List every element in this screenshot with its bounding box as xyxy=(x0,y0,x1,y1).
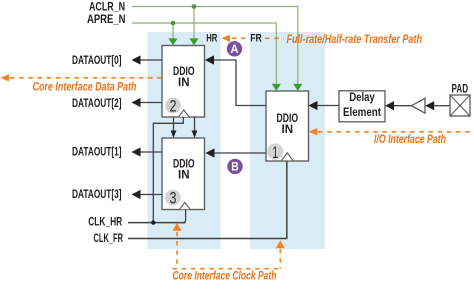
wire buffer to Delay Element xyxy=(385,101,412,110)
wire CLK_HR net xyxy=(128,117,186,223)
wire DATAOUT[2] with arrow xyxy=(132,98,163,107)
I/O interface shaded region (right blue band) xyxy=(250,32,325,249)
green arrowhead into DDIO 1 (ACLR) xyxy=(293,84,302,91)
PAD cell (square with X) xyxy=(450,95,470,116)
wire DATAOUT[3] with arrow xyxy=(132,190,163,199)
junction dot CLK_HR xyxy=(151,220,155,224)
svg-text:Element: Element xyxy=(343,106,381,119)
svg-text:HR: HR xyxy=(206,32,217,44)
svg-text:APRE_N: APRE_N xyxy=(87,12,126,26)
svg-text:I/O Interface Path: I/O Interface Path xyxy=(374,134,446,146)
svg-text:Core Interface Clock Path: Core Interface Clock Path xyxy=(173,271,277,283)
DDIO IN block U1 xyxy=(266,91,309,161)
svg-text:Delay: Delay xyxy=(349,91,375,104)
annotation: clock path arrow to U3 clock xyxy=(173,223,182,269)
junction dot on ACLR_N xyxy=(192,4,197,9)
annotation: transfer path arrow and dashes xyxy=(222,35,285,42)
core interface shaded region (left blue band) xyxy=(148,32,221,249)
DDIO IN block U2 xyxy=(162,46,205,118)
DDIO IN block U3 xyxy=(162,138,205,210)
clock triangle of U3 xyxy=(180,202,191,209)
internal transfer arrows U2 -> U3 xyxy=(171,117,198,138)
wire DATAOUT[1] with arrow xyxy=(132,147,163,156)
junction dot on APRE_N xyxy=(171,21,176,26)
svg-text:CLK_HR: CLK_HR xyxy=(88,216,123,228)
green arrowhead into DDIO 1 (APRE) xyxy=(272,84,281,91)
green arrowhead into DDIO 2 (from APRE branch) xyxy=(168,38,177,45)
number circle 2 xyxy=(165,98,181,114)
wire PAD to buffer with arrow xyxy=(425,101,450,110)
svg-text:Full-rate/Half-rate Transfer P: Full-rate/Half-rate Transfer Path xyxy=(287,34,423,46)
svg-text:2: 2 xyxy=(170,98,177,116)
svg-text:IN: IN xyxy=(282,124,294,136)
number circle 1 xyxy=(267,143,283,159)
number circle 3 xyxy=(165,190,181,206)
wire U1 output to U3 input xyxy=(206,148,267,157)
node B circle xyxy=(227,159,242,174)
net APRE_N wire xyxy=(132,23,276,84)
net ACLR_N wire xyxy=(132,7,298,85)
svg-text:3: 3 xyxy=(170,190,177,208)
svg-text:DATAOUT[3]: DATAOUT[3] xyxy=(72,187,122,201)
svg-text:CLK_FR: CLK_FR xyxy=(94,233,124,245)
svg-text:IN: IN xyxy=(178,77,190,89)
wire Delay Element to U1 input xyxy=(309,101,340,110)
wire CLK_FR net xyxy=(128,161,287,239)
green arrowhead into DDIO 2 (from ACLR branch) xyxy=(189,38,198,45)
annotation: I/O Interface Path arrow xyxy=(309,128,473,135)
clock triangle of U1 xyxy=(282,153,293,161)
svg-text:FR: FR xyxy=(250,32,262,44)
wire DATAOUT[0] with arrow xyxy=(132,55,163,64)
svg-text:DATAOUT[2]: DATAOUT[2] xyxy=(72,96,122,110)
svg-text:Core Interface Data Path: Core Interface Data Path xyxy=(33,81,137,93)
svg-text:DATAOUT[1]: DATAOUT[1] xyxy=(72,145,122,159)
svg-text:DATAOUT[0]: DATAOUT[0] xyxy=(72,53,122,67)
svg-text:B: B xyxy=(231,162,239,174)
input buffer triangle xyxy=(412,98,426,113)
annotation: Core Interface Data Path arrow xyxy=(1,74,162,81)
svg-text:PAD: PAD xyxy=(452,83,469,95)
clock triangle of U2 xyxy=(179,110,190,117)
svg-text:1: 1 xyxy=(272,144,278,162)
node A circle xyxy=(227,41,242,56)
wire U1 output to U2 input xyxy=(205,55,266,105)
svg-text:A: A xyxy=(230,44,238,56)
Delay Element block xyxy=(339,91,385,122)
svg-text:IN: IN xyxy=(178,170,190,182)
annotation: clock path arrow to U1 clock xyxy=(173,240,285,268)
